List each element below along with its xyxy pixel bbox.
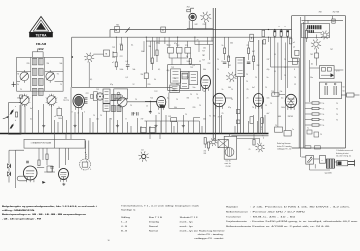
mains transformer — [326, 159, 334, 169]
svg-text:70P05: 70P05 — [288, 116, 293, 118]
resistor R14 — [228, 37, 230, 68]
svg-text:70: 70 — [249, 149, 251, 151]
svg-text:4: 4 — [78, 113, 79, 115]
svg-text:7C2: 7C2 — [96, 89, 99, 91]
coil T1a — [32, 58, 43, 65]
capacitor C61 — [50, 167, 54, 173]
feedback box — [320, 66, 335, 79]
svg-text:762: 762 — [228, 65, 231, 67]
svg-text:0,1: 0,1 — [158, 69, 160, 71]
svg-text:: M.B.C. 4/6 - 10 - 60: : M.B.C. 4/6 - 10 - 60 — [250, 216, 297, 218]
svg-text:10n: 10n — [203, 48, 206, 50]
wire power top — [302, 16, 344, 24]
svg-text:1k: 1k — [222, 89, 224, 91]
labels under top tubes — [195, 24, 206, 26]
svg-text:12: 12 — [199, 61, 201, 63]
svg-text:1k: 1k — [222, 45, 224, 47]
svg-text:47p: 47p — [267, 69, 270, 71]
svg-text:1k: 1k — [158, 113, 160, 115]
svg-text:B - B: B - B — [121, 230, 128, 232]
wire top bus A — [110, 29, 292, 31]
svg-text:80: 80 — [214, 116, 216, 118]
svg-text:500: 500 — [64, 98, 67, 100]
wire mid bus C — [146, 41, 213, 44]
svg-text:500: 500 — [203, 119, 206, 121]
coil T2b — [32, 88, 43, 95]
svg-text:Normal: Normal — [149, 230, 159, 232]
resistor R40 — [274, 29, 276, 36]
svg-text:762: 762 — [116, 25, 119, 27]
right rail labels — [336, 103, 338, 122]
svg-text:5k: 5k — [167, 45, 169, 47]
svg-text:8: 8 — [222, 61, 223, 63]
svg-text:70: 70 — [209, 116, 211, 118]
svg-text:70: 70 — [265, 87, 267, 89]
svg-text:762: 762 — [257, 65, 260, 67]
resistor ladder — [305, 102, 322, 126]
svg-text:10n: 10n — [193, 87, 196, 89]
svg-text:7C2: 7C2 — [150, 63, 153, 65]
relay box — [218, 139, 228, 147]
svg-text:25: 25 — [17, 98, 19, 100]
wire riser h links — [145, 118, 201, 121]
svg-text:8: 8 — [126, 119, 127, 121]
dashed speaker link — [85, 152, 87, 162]
shield line right — [215, 8, 217, 141]
svg-text:70: 70 — [93, 115, 95, 117]
svg-text:Transformer: Transformer — [226, 216, 241, 218]
svg-text:762: 762 — [187, 7, 190, 9]
labels under T9 — [225, 160, 232, 168]
ground V9 — [62, 183, 65, 186]
capacitor block C50 — [320, 82, 342, 99]
svg-text:7C2: 7C2 — [120, 44, 123, 46]
svg-text:50k: 50k — [174, 107, 177, 109]
wire lower link — [237, 138, 260, 143]
svg-text:nedlægges PU - mk.: nedlægges PU - mk. — [277, 148, 292, 150]
labels a a — [279, 26, 287, 28]
labels R70 — [204, 151, 207, 156]
chassis bus — [0, 133, 269, 135]
text block left — [2, 205, 98, 221]
svg-text:90: 90 — [17, 74, 19, 76]
lamp LP7 — [255, 143, 264, 152]
svg-text:0,1: 0,1 — [126, 61, 128, 63]
svg-text:70: 70 — [265, 105, 267, 107]
shield wire 237.7 — [237, 77, 239, 134]
IF transformer T8 — [236, 57, 245, 76]
chassis bus lower — [231, 135, 268, 137]
resistor R16 — [253, 37, 255, 70]
label 90 — [17, 74, 19, 76]
caps under gang — [132, 111, 151, 116]
rect right of V8 — [47, 166, 53, 172]
svg-text:768: 768 — [319, 11, 322, 13]
antenna glyph 1 — [10, 109, 14, 114]
antenna top box — [20, 95, 23, 98]
wire into box y61 — [288, 58, 299, 64]
svg-text:mørk - lys: mørk - lys — [180, 226, 193, 228]
svg-text:212: 212 — [141, 150, 144, 152]
coil T5 — [112, 105, 122, 111]
svg-text:5k: 5k — [17, 84, 19, 86]
coil L3 dotted — [96, 93, 103, 100]
label TR7 — [171, 67, 193, 69]
shield wire 240.4 — [239, 77, 241, 134]
variable capacitor CV6 — [118, 95, 128, 109]
svg-text:70: 70 — [176, 99, 178, 101]
logo triangle TETRA — [29, 17, 53, 38]
svg-text:70: 70 — [255, 77, 257, 79]
svg-text:47p: 47p — [174, 43, 177, 45]
junction dots bus B — [116, 37, 288, 38]
svg-text:Bølgelængder og grænsebølgevær: Bølgelængder og grænsebølgeværdier, frkv… — [2, 205, 98, 208]
bottom right resistors — [249, 134, 256, 152]
extra wire labels — [20, 54, 286, 117]
svg-text:70: 70 — [196, 94, 198, 96]
svg-text:500: 500 — [228, 87, 231, 89]
svg-text:70: 70 — [252, 107, 254, 109]
component 263 — [262, 30, 265, 36]
svg-text:: Ferritor nr. 4/7008 m. 2-po: : Ferritor nr. 4/7008 m. 2-polet stik, n… — [250, 225, 331, 228]
mains plug X1 — [348, 160, 355, 166]
tube V3 EF89 — [201, 75, 211, 91]
svg-text:7a: 7a — [307, 128, 309, 130]
variable capacitor CV1 — [20, 70, 29, 83]
shield wire 243.5 — [243, 57, 245, 133]
wire tuner h2 — [17, 81, 64, 83]
wire L to box — [268, 37, 299, 67]
svg-text:4n7: 4n7 — [267, 113, 270, 115]
svg-text:0,5: 0,5 — [30, 119, 32, 121]
svg-text:762 768: 762 768 — [333, 11, 340, 13]
svg-text:74x: 74x — [280, 91, 283, 93]
resistor R61 — [38, 148, 40, 165]
svg-text:7a: 7a — [292, 129, 294, 131]
text block right — [226, 206, 359, 228]
svg-text:10: 10 — [108, 240, 110, 242]
antenna arrow — [3, 116, 9, 119]
resistor R50 — [305, 28, 307, 42]
svg-text:0,5: 0,5 — [126, 77, 128, 79]
wire drop 146.3 — [145, 37, 147, 73]
power box outline — [292, 16, 346, 148]
svg-text:25: 25 — [247, 89, 249, 91]
svg-text:b1: b1 — [311, 63, 313, 65]
svg-text:1k: 1k — [323, 120, 325, 122]
variable capacitor CV2 — [46, 70, 55, 83]
svg-text:2n: 2n — [186, 56, 188, 58]
fuse F1 — [341, 93, 360, 97]
variable capacitor CV4 — [46, 94, 57, 107]
IF box T3 — [103, 89, 110, 103]
tube V7 EL84 — [285, 94, 296, 110]
svg-text:50k: 50k — [133, 69, 136, 71]
variable capacitor CV3 — [19, 94, 30, 107]
part under lamp — [315, 49, 319, 66]
svg-text:50: 50 — [343, 91, 345, 93]
tube V8 ECL82 — [23, 166, 37, 182]
component mid — [271, 91, 282, 96]
svg-text:0,1: 0,1 — [90, 79, 92, 81]
svg-text:4n7: 4n7 — [252, 51, 255, 53]
svg-text:70: 70 — [130, 105, 132, 107]
resistor R60 — [46, 148, 48, 165]
tuner lower boxes — [114, 89, 128, 99]
svg-text:2n: 2n — [174, 78, 176, 80]
svg-text:5k: 5k — [228, 57, 230, 59]
svg-text:70: 70 — [231, 99, 233, 101]
wire bus A left elbow — [109, 30, 111, 38]
svg-text:70: 70 — [294, 77, 296, 79]
svg-text:b: b — [15, 120, 16, 122]
mains switch box — [306, 156, 314, 165]
text table middle — [121, 204, 225, 240]
svg-text:5k: 5k — [154, 79, 156, 81]
svg-text:stilling: GRAMMOFON.: stilling: GRAMMOFON. — [2, 209, 36, 212]
svg-text:Bue T 1 B: Bue T 1 B — [149, 217, 163, 219]
page number — [108, 240, 110, 242]
svg-text:4n7: 4n7 — [252, 87, 255, 89]
tube V2 ECH81 — [157, 96, 166, 109]
wire top bus B — [72, 36, 292, 38]
svg-text:Trimmefrekvens, T 1 - 4, er ve: Trimmefrekvens, T 1 - 4, er ved i stilli… — [121, 204, 199, 207]
svg-text:Mellemfrekvenser: Mellemfrekvenser — [226, 212, 248, 214]
svg-text:100k: 100k — [281, 107, 285, 109]
svg-text:50k: 50k — [203, 69, 206, 71]
small rect right tuner — [54, 100, 69, 118]
label 762 top — [187, 7, 190, 9]
svg-text:a 70: a 70 — [336, 71, 339, 73]
svg-text:7C7: 7C7 — [202, 51, 205, 53]
svg-text:a2: a2 — [293, 47, 295, 49]
svg-text:10n: 10n — [267, 98, 270, 100]
svg-text:1k: 1k — [58, 107, 60, 109]
svg-text:a3: a3 — [54, 116, 56, 118]
component value labels — [17, 40, 333, 121]
svg-text:nedlægges PU - mærket: nedlægges PU - mærket — [194, 237, 224, 240]
resistor R12 — [189, 53, 191, 65]
component 146 — [144, 73, 148, 87]
shield line left — [212, 8, 214, 141]
svg-text:7C2: 7C2 — [112, 47, 115, 49]
svg-text:70: 70 — [270, 103, 272, 105]
resistor R70 — [204, 138, 209, 152]
switch arm S1b — [126, 27, 130, 32]
rectifier row — [307, 25, 321, 33]
svg-text:a: a — [15, 106, 16, 108]
resistor R11 — [156, 37, 158, 62]
power lower rect 2 — [284, 131, 291, 137]
svg-text:70: 70 — [246, 74, 248, 76]
label 902 — [38, 47, 43, 51]
svg-text:7B7: 7B7 — [202, 55, 205, 57]
series caps — [85, 98, 88, 103]
tube V5 det — [253, 94, 263, 109]
coil T2a — [32, 78, 43, 85]
lamp P1 — [138, 150, 149, 162]
svg-text:3: 3 — [72, 112, 73, 114]
tube V2 dark wedge — [160, 105, 166, 109]
svg-text:500: 500 — [230, 43, 233, 45]
svg-text:: 2 stk. Peerless D K85 1 s: : 2 stk. Peerless D K85 1 stk. 80 DSVG -… — [250, 206, 351, 209]
wire top tube row — [187, 28, 213, 31]
lamp LP5 — [84, 53, 94, 88]
power box edge double — [301, 17, 304, 148]
svg-text:12: 12 — [294, 84, 296, 86]
svg-text:Mellemtransformator: Mellemtransformator — [226, 225, 251, 228]
wire gang links — [110, 100, 157, 102]
svg-text:2n: 2n — [247, 98, 249, 100]
label trafo — [325, 172, 332, 175]
svg-text:2n: 2n — [267, 77, 269, 79]
svg-text:: Ferritor 452 kHz / 10,7 MHz: : Ferritor 452 kHz / 10,7 MHz — [250, 211, 305, 214]
svg-text:70: 70 — [135, 99, 137, 101]
label b1 — [311, 63, 339, 72]
antenna labels — [15, 106, 16, 122]
output transformer T9 — [224, 134, 237, 160]
svg-text:E: E — [115, 28, 117, 32]
svg-text:747: 747 — [267, 59, 270, 61]
wire tuner h1 — [17, 71, 64, 73]
wire af links — [37, 134, 71, 173]
svg-text:747: 747 — [330, 49, 333, 51]
labels above V2 — [154, 84, 178, 93]
svg-text:Stilling: Stilling — [121, 216, 130, 219]
svg-text:70: 70 — [284, 75, 286, 77]
svg-text:1 GRAMMOFON 902AB: 1 GRAMMOFON 902AB — [31, 142, 52, 145]
svg-text:0,5: 0,5 — [193, 65, 195, 67]
svg-text:2n: 2n — [116, 98, 118, 100]
svg-text:747: 747 — [247, 63, 250, 65]
svg-text:TETRA: TETRA — [36, 33, 48, 37]
svg-text:70: 70 — [336, 114, 338, 116]
IF sub inner 3 — [189, 72, 198, 85]
svg-text:sluttes PU - tænding.: sluttes PU - tænding. — [198, 233, 225, 236]
svg-text:762: 762 — [310, 54, 313, 56]
svg-text:50k: 50k — [141, 51, 144, 53]
selector box — [320, 156, 326, 164]
svg-text:Normal: Normal — [149, 226, 159, 228]
svg-text:1k: 1k — [323, 114, 325, 116]
wire risers — [20, 87, 265, 133]
antenna glyph 2 — [10, 124, 14, 129]
small cap V8 — [26, 161, 29, 163]
pickup diode D1 — [7, 160, 10, 169]
shield wire 262.3 — [261, 40, 263, 134]
svg-text:70: 70 — [217, 59, 219, 61]
svg-text:70: 70 — [246, 81, 248, 83]
IF box T3b — [103, 104, 110, 111]
svg-text:5k: 5k — [197, 98, 199, 100]
label speaker — [90, 169, 91, 171]
capacitor C21 — [126, 65, 130, 70]
svg-text:242: 242 — [195, 24, 198, 26]
svg-text:4n7: 4n7 — [30, 108, 33, 110]
svg-text:91: 91 — [57, 74, 59, 76]
wire drop 194.9 207.7 — [195, 37, 212, 44]
svg-text:12: 12 — [146, 106, 148, 108]
right note text — [336, 149, 353, 157]
left resistor — [15, 112, 17, 117]
svg-text:70: 70 — [217, 69, 219, 71]
arrow glyph — [42, 181, 46, 184]
rectifier box — [302, 24, 330, 38]
wire det right — [279, 94, 285, 96]
wire left drop — [71, 37, 73, 87]
svg-text:0,5: 0,5 — [281, 98, 283, 100]
label 91 — [57, 74, 59, 76]
lamp LP3 — [311, 39, 321, 49]
label FM-AM — [36, 42, 47, 46]
labels C50 — [343, 87, 345, 93]
plug housing — [337, 161, 348, 166]
svg-text:a1: a1 — [293, 42, 295, 44]
svg-text:Batterispændinger er: GB - SB: Batterispændinger er: GB - SB - LB - BB … — [2, 213, 87, 216]
svg-text:70: 70 — [197, 40, 199, 42]
bus top rects — [141, 127, 156, 132]
wire mains links — [301, 148, 337, 170]
svg-text:7C4: 7C4 — [271, 91, 274, 93]
svg-text:220: 220 — [193, 107, 196, 109]
shield wire 258.8 — [258, 40, 260, 134]
label 762 768 — [333, 11, 340, 13]
label 747 — [218, 116, 221, 118]
svg-text:70 OM: 70 OM — [226, 166, 231, 168]
svg-text:Skaladel T 1 F: Skaladel T 1 F — [180, 217, 199, 219]
wire right exit — [341, 94, 360, 96]
svg-text:212: 212 — [203, 24, 206, 26]
extra mid verticals — [144, 41, 210, 65]
ground symbols — [42, 124, 185, 127]
svg-text:902: 902 — [38, 47, 43, 51]
svg-text:70: 70 — [320, 134, 322, 136]
svg-text:mørk - lys (se Radio kog klem: mørk - lys (se Radio kog klemmer — [180, 230, 225, 232]
wires out drops — [275, 43, 288, 131]
label 202 — [168, 116, 215, 118]
svg-text:10n: 10n — [96, 119, 99, 121]
svg-text:7C2: 7C2 — [86, 93, 89, 95]
pins V1 — [72, 112, 86, 115]
svg-text:0,1: 0,1 — [167, 98, 169, 100]
resistor R10 — [151, 37, 153, 70]
svg-text:12: 12 — [133, 84, 135, 86]
lamp LP6 — [209, 138, 217, 146]
component row caps — [168, 47, 191, 53]
svg-text:70: 70 — [199, 105, 201, 107]
switch S1c — [161, 27, 166, 32]
wire tuner feed — [32, 49, 43, 58]
svg-text:25: 25 — [247, 45, 249, 47]
svg-text:70: 70 — [336, 120, 338, 122]
tube V6 EM84 — [187, 8, 197, 29]
junction blob — [71, 56, 73, 58]
wire to pot — [150, 134, 160, 140]
svg-text:202: 202 — [204, 153, 207, 155]
dashed link — [262, 127, 264, 140]
wire drops row out — [169, 53, 188, 58]
speaker LS1 — [80, 141, 91, 171]
tube V9 EZ80 — [59, 168, 69, 181]
svg-text:50k: 50k — [60, 63, 63, 65]
svg-text:70: 70 — [284, 67, 286, 69]
capacitor C60 — [332, 19, 335, 23]
label GRAMMOFON — [31, 142, 52, 145]
svg-text:70: 70 — [336, 103, 338, 105]
wire drop 127.7 — [127, 37, 129, 64]
mains note text — [277, 143, 292, 150]
switch S1d — [250, 34, 254, 41]
